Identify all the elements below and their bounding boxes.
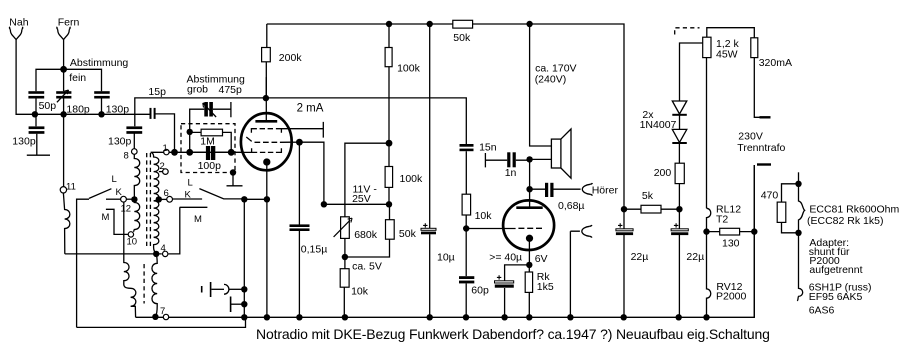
- svg-text:50p: 50p: [39, 100, 57, 112]
- svg-text:Fern: Fern: [58, 16, 80, 28]
- svg-text:1n: 1n: [505, 167, 517, 179]
- svg-text:22µ: 22µ: [631, 251, 649, 263]
- svg-text:>= 40µ: >= 40µ: [489, 252, 522, 264]
- svg-text:200k: 200k: [279, 52, 303, 64]
- svg-text:ca. 5V: ca. 5V: [352, 260, 382, 272]
- svg-text:10: 10: [127, 237, 138, 248]
- svg-text:ECC81 Rk600Ohm: ECC81 Rk600Ohm: [809, 204, 899, 216]
- svg-text:230V: 230V: [738, 131, 763, 143]
- svg-text:EF95 6AK5: EF95 6AK5: [809, 291, 863, 303]
- svg-text:180p: 180p: [66, 104, 90, 116]
- svg-text:1: 1: [163, 143, 168, 154]
- svg-text:aufgetrennt: aufgetrennt: [809, 264, 862, 276]
- svg-text:475p: 475p: [219, 84, 243, 96]
- svg-text:M: M: [194, 214, 202, 225]
- svg-text:45W: 45W: [716, 49, 738, 61]
- svg-text:50k: 50k: [453, 32, 471, 44]
- svg-text:4: 4: [161, 243, 166, 254]
- svg-text:60p: 60p: [471, 285, 489, 297]
- svg-text:2: 2: [160, 161, 165, 172]
- svg-text:L: L: [112, 174, 117, 185]
- svg-text:10k: 10k: [351, 286, 369, 298]
- svg-text:P2000: P2000: [716, 291, 747, 303]
- svg-text:22µ: 22µ: [686, 251, 704, 263]
- svg-text:130p: 130p: [106, 104, 130, 116]
- svg-text:1N4007: 1N4007: [640, 119, 677, 131]
- svg-text:11: 11: [66, 182, 76, 193]
- svg-text:K: K: [185, 190, 192, 201]
- svg-text:130p: 130p: [108, 136, 132, 148]
- svg-text:15p: 15p: [148, 86, 166, 98]
- svg-text:5k: 5k: [642, 190, 654, 202]
- svg-text:50k: 50k: [399, 228, 417, 240]
- svg-text:0,68µ: 0,68µ: [558, 200, 585, 212]
- svg-text:6AS6: 6AS6: [809, 305, 835, 317]
- svg-text:7: 7: [160, 306, 165, 317]
- svg-text:680k: 680k: [354, 229, 378, 241]
- svg-text:Abstimmung: Abstimmung: [70, 57, 129, 69]
- svg-text:6: 6: [164, 188, 169, 199]
- svg-text:L: L: [188, 178, 193, 189]
- svg-text:200: 200: [654, 167, 672, 179]
- svg-text:Trenntrafo: Trenntrafo: [737, 142, 785, 154]
- svg-text:(ECC82 Rk 1k5): (ECC82 Rk 1k5): [807, 215, 883, 227]
- svg-text:(240V): (240V): [535, 74, 567, 86]
- svg-text:2 mA: 2 mA: [297, 102, 324, 114]
- svg-text:25V: 25V: [352, 193, 371, 205]
- svg-text:100k: 100k: [397, 62, 421, 74]
- svg-text:6V: 6V: [535, 253, 548, 265]
- svg-text:15n: 15n: [479, 142, 497, 154]
- svg-text:0,15µ: 0,15µ: [301, 243, 328, 255]
- svg-text:Notradio mit DKE-Bezug Funkwer: Notradio mit DKE-Bezug Funkwerk Dabendor…: [256, 326, 770, 342]
- svg-text:1M: 1M: [200, 135, 215, 147]
- svg-text:T2: T2: [716, 214, 728, 226]
- svg-text:1k5: 1k5: [537, 281, 554, 293]
- svg-text:130p: 130p: [12, 136, 36, 148]
- svg-text:320mA: 320mA: [759, 57, 792, 69]
- svg-text:Nah: Nah: [9, 16, 28, 28]
- svg-text:K: K: [116, 187, 123, 198]
- svg-text:Hörer: Hörer: [592, 184, 619, 196]
- svg-text:10k: 10k: [475, 210, 493, 222]
- svg-text:fein: fein: [69, 72, 86, 84]
- svg-text:grob: grob: [187, 84, 208, 96]
- svg-text:M: M: [102, 212, 110, 223]
- svg-text:100k: 100k: [400, 173, 424, 185]
- svg-text:10µ: 10µ: [437, 252, 455, 264]
- svg-text:100p: 100p: [198, 160, 222, 172]
- svg-text:12: 12: [121, 204, 132, 215]
- svg-text:130: 130: [722, 237, 740, 249]
- svg-text:470: 470: [761, 190, 779, 202]
- svg-text:ca. 170V: ca. 170V: [535, 62, 576, 74]
- svg-text:8: 8: [124, 151, 129, 162]
